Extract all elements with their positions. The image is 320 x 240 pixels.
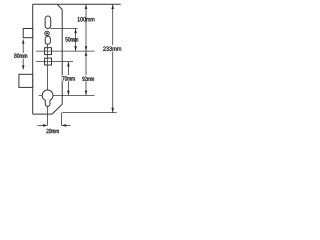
dimension line 70mm: [67, 62, 69, 96]
arrow 50mm down: [74, 46, 77, 51]
arrow 80mm down: [22, 65, 25, 69]
20mm extension: cylinder centreline tail & right edge tail: [60, 113, 62, 126]
arrow 92mm down: [85, 91, 88, 96]
spindle follower square 2: [45, 58, 52, 65]
cylinder horizontal centre line: [39, 94, 95, 96]
extension line: obround1 bottom, for 50mm: [50, 27, 77, 29]
spindle follower square 1 crosshair: [36, 50, 95, 52]
label 80mm: [14, 53, 29, 59]
label 92mm: [82, 75, 94, 81]
arrowheads: [22, 4, 114, 127]
arrow 20mm right pointing left: [61, 124, 66, 127]
label 70mm: [62, 75, 76, 81]
label 20mm: [46, 129, 58, 133]
arrow 70mm down: [67, 91, 70, 96]
arrow 100mm up: [85, 4, 88, 9]
case top-right chamfer: [57, 4, 62, 9]
spindle follower square 2 crosshair: [36, 61, 73, 63]
deadbolt: [19, 74, 33, 87]
spindle follower square 1: [45, 48, 52, 55]
arrow 80mm up: [22, 39, 25, 43]
node: top extension line: [33, 3, 121, 5]
screw head circle with dot: [45, 31, 49, 35]
label 50mm: [65, 37, 78, 41]
extension line: bottom of case, for 233mm: [62, 112, 116, 114]
case bottom edge: [33, 113, 52, 115]
label 100mm: [78, 17, 95, 21]
euro cylinder profile: [42, 90, 53, 106]
wire: vertical centre line through lock components: [47, 36, 49, 126]
dimension line 233mm: [112, 4, 114, 112]
gearbox case left edge (faceplate): [32, 4, 34, 114]
slot: second obround: [45, 36, 50, 44]
label 233mm: [102, 45, 122, 51]
slot: top handle obround: [45, 16, 51, 29]
latch bolt: [23, 29, 33, 38]
dimension line 50mm: [75, 28, 77, 51]
case right edge: [61, 10, 63, 105]
arrow 233mm up: [111, 4, 114, 9]
arrow 50mm up: [74, 28, 77, 33]
arrow 20mm left pointing right: [43, 124, 48, 127]
arrow 100mm down / 92mm up at spindle line: [85, 46, 88, 51]
dimension line 100mm / 92mm shared: [85, 4, 87, 95]
labels: [14, 17, 123, 133]
arrow 70mm up: [67, 62, 70, 67]
case bottom-right chamfer: [52, 104, 62, 114]
20mm dimension arrows tails: [38, 124, 44, 126]
dimension line 80mm left: [22, 39, 24, 69]
arrow 233mm down: [111, 108, 114, 113]
